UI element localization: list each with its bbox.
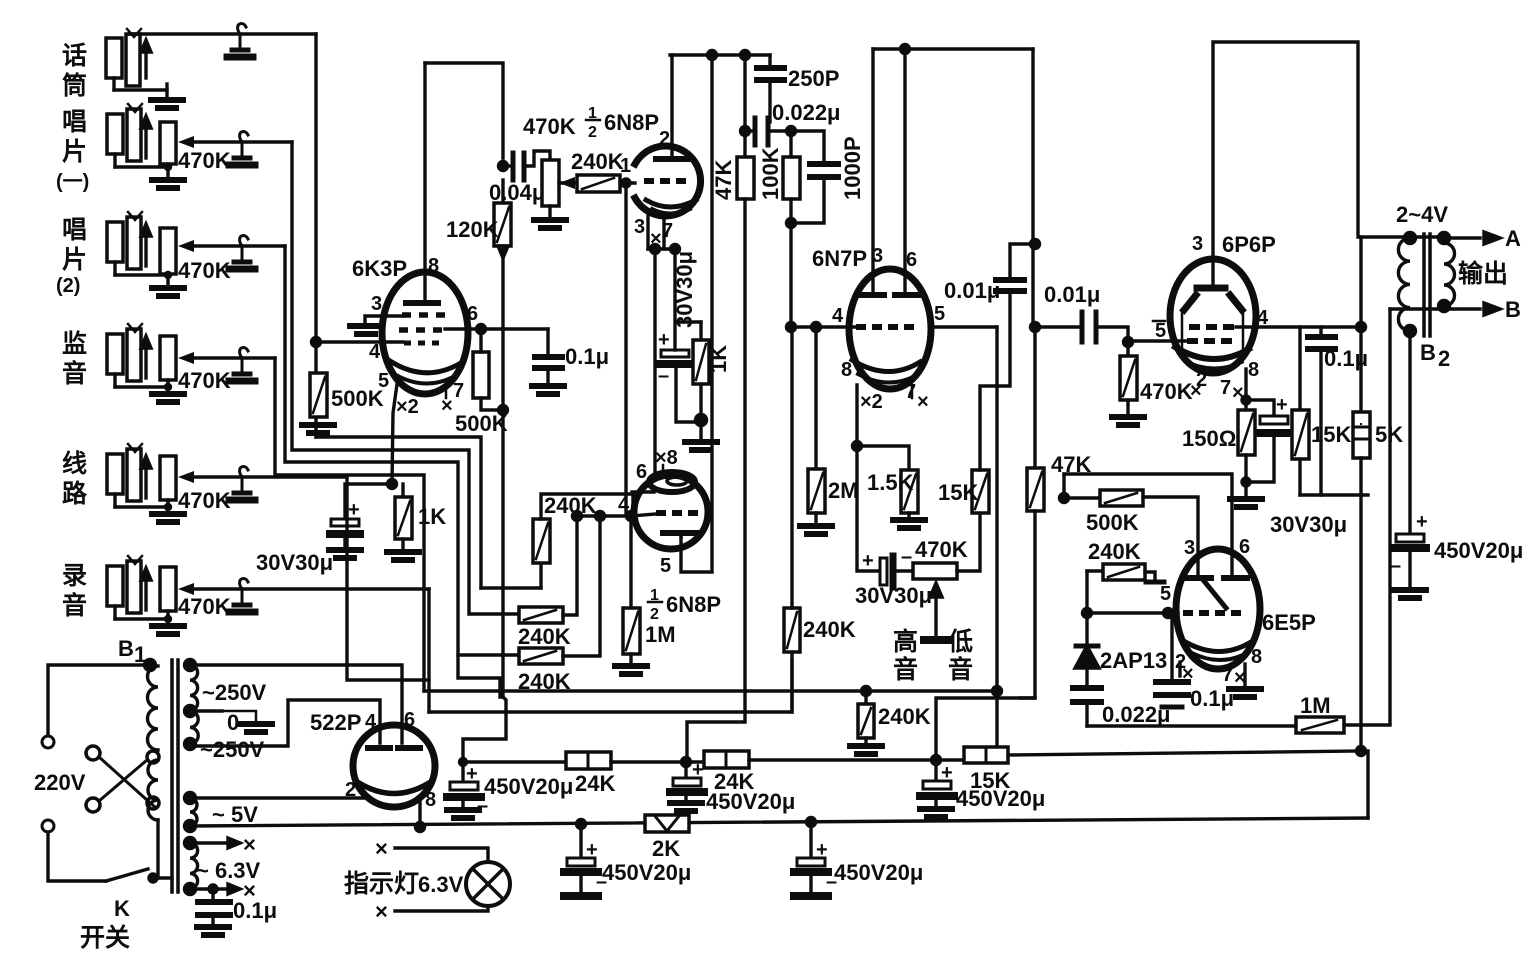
svg-text:470K: 470K	[178, 148, 231, 173]
terminal circle bottom	[42, 820, 54, 832]
wire plate top loop	[425, 63, 503, 158]
node junction (712,55)	[708, 51, 717, 60]
svg-text:(一): (一)	[56, 171, 89, 193]
6E5P pin8 lead + ground	[1243, 664, 1246, 685]
svg-text:5: 5	[378, 370, 389, 392]
svg-text:470K: 470K	[915, 537, 968, 562]
plug P4	[229, 347, 255, 381]
node junction (168,387)	[166, 385, 171, 390]
470K wiper arrow down	[934, 596, 937, 638]
svg-text:+: +	[658, 329, 670, 351]
resistor 470K (volume top)	[542, 160, 559, 206]
svg-text:7: 7	[453, 380, 464, 402]
6P6P beam plates	[1184, 295, 1196, 310]
svg-text:唱: 唱	[62, 108, 87, 136]
svg-text:2~4V: 2~4V	[1396, 202, 1448, 227]
node 500K2 top	[477, 325, 486, 334]
svg-text:2: 2	[650, 606, 659, 623]
resistor 120K	[501, 180, 504, 203]
resistor 15K (feedback)	[1298, 327, 1301, 410]
ground (row5 pot)	[152, 514, 184, 522]
6K3P cathode arc	[390, 361, 459, 373]
node junction (631,516)	[627, 512, 636, 521]
wire HV bottom to 522P pin4	[190, 700, 380, 746]
wire 6N7P plate down long	[995, 327, 998, 747]
svg-text:240K: 240K	[803, 617, 856, 642]
potentiometer 470K row5	[160, 456, 176, 500]
svg-text:+: +	[348, 499, 360, 521]
node 120K bottom junction	[499, 406, 508, 415]
svg-text:1M: 1M	[1300, 693, 1331, 718]
svg-text:0.022μ: 0.022μ	[772, 100, 841, 125]
6N7P plate leads to top	[871, 49, 874, 293]
potentiometer 470K (tone)	[913, 563, 957, 579]
svg-text:30V30μ: 30V30μ	[1270, 512, 1347, 537]
wire top line 2	[670, 53, 770, 56]
svg-text:话: 话	[62, 42, 87, 70]
output arrow A	[1444, 236, 1480, 239]
resistor 1M (magic eye feed)	[1296, 725, 1299, 726]
6N8P1 grid dashes	[644, 178, 686, 184]
svg-text:0.1μ: 0.1μ	[233, 898, 277, 923]
wire pin8 lead down to 6N8P2	[653, 249, 656, 477]
wire staircase row2	[292, 142, 519, 614]
6N7P grid wire	[791, 325, 856, 328]
6K3P grid dashes row1	[402, 312, 445, 318]
6P6P pin8 lead	[1244, 369, 1247, 410]
svg-text:15K: 15K	[938, 480, 978, 505]
ground (row4 pot)	[152, 394, 184, 402]
node junction (745,55)	[741, 51, 750, 60]
svg-text:1000P: 1000P	[840, 136, 865, 200]
svg-text:~ 6.3V: ~ 6.3V	[196, 858, 261, 883]
diode 2AP13	[1085, 613, 1088, 646]
plug P1	[227, 23, 253, 57]
svg-text:30V30μ: 30V30μ	[256, 550, 333, 575]
wire wiper row6	[190, 587, 429, 590]
svg-text:470K: 470K	[523, 114, 576, 139]
node junction (675,249)	[671, 245, 680, 254]
wire cathode to bypass	[345, 484, 392, 518]
capacitor 450V20u no1	[461, 762, 464, 780]
node junction (866,691)	[862, 687, 871, 696]
ground (row3 pot)	[152, 288, 184, 296]
input jack J5 line	[107, 444, 168, 507]
svg-text:240K: 240K	[518, 624, 571, 649]
6K3P grid dashes row2	[399, 327, 442, 333]
input jack J4 monitor	[107, 324, 168, 387]
switch K blade	[106, 869, 148, 881]
resistor 15K (rail)	[964, 747, 1008, 763]
wire rail right to 5K line	[1008, 751, 1361, 755]
svg-text:1K: 1K	[706, 345, 731, 373]
resistor 2M	[814, 327, 817, 469]
resistor 240K mixer vertical	[539, 563, 542, 588]
resistor 240K (to 6N8P grid)	[559, 181, 577, 184]
transformer B2 core	[1422, 234, 1426, 336]
capacitor 450V20u no2	[684, 762, 687, 776]
6N8P2 grid wire	[577, 514, 656, 516]
svg-text:8: 8	[425, 789, 436, 811]
svg-text:音: 音	[62, 359, 87, 388]
svg-text:450V20μ: 450V20μ	[484, 774, 573, 799]
node junction (168,507)	[166, 505, 171, 510]
6N8P2 pin6 stub	[632, 490, 654, 493]
svg-text:0.1μ: 0.1μ	[565, 344, 609, 369]
node junction (905,49)	[901, 45, 910, 54]
svg-text:~250V: ~250V	[200, 737, 265, 762]
wire 0.01u1 bottom leg	[980, 295, 1010, 470]
6E5P ray line	[1204, 581, 1226, 608]
6N7P cathode arcs	[852, 360, 920, 372]
svg-text:2: 2	[588, 124, 597, 141]
svg-text:(2): (2)	[56, 275, 80, 297]
ground (row6 pot)	[152, 626, 184, 634]
wire bus A long	[424, 689, 997, 692]
svg-text:15K: 15K	[1311, 422, 1351, 447]
svg-text:6K3P: 6K3P	[352, 256, 407, 281]
svg-text:8: 8	[428, 255, 439, 277]
node junction (997,691)	[993, 687, 1002, 696]
svg-text:240K: 240K	[878, 704, 931, 729]
terminal circle top	[42, 736, 54, 748]
6N8P2 plate bar	[663, 530, 697, 536]
wire wiper row4	[190, 356, 275, 359]
node junction (936,760)	[932, 756, 941, 765]
522P pin8 lead	[418, 802, 421, 825]
potentiometer 470K row6	[160, 567, 176, 611]
svg-text:120K: 120K	[446, 217, 499, 242]
wire 240K left leg	[1085, 571, 1088, 613]
6P6P pin4 plate wire	[1236, 325, 1361, 328]
capacitor 450V20u no5	[807, 818, 816, 827]
wire wiper row2	[190, 140, 292, 143]
svg-text:3: 3	[634, 216, 645, 238]
6N7P pin8 lead	[855, 385, 858, 446]
svg-text:监: 监	[62, 330, 87, 358]
svg-text:×8: ×8	[655, 447, 678, 469]
node junction (791,131)	[787, 127, 796, 136]
svg-text:15K: 15K	[970, 768, 1010, 793]
6P6P cathode arc	[1175, 347, 1249, 359]
svg-text:4: 4	[369, 341, 381, 363]
svg-text:~ 5V: ~ 5V	[212, 802, 258, 827]
capacitor 0.1u (heater)	[211, 889, 214, 899]
resistor 240K mixer h2	[458, 653, 519, 656]
svg-text:6P6P: 6P6P	[1222, 232, 1276, 257]
wire mic vertical bus	[314, 34, 317, 437]
svg-text:0.01μ: 0.01μ	[1044, 282, 1100, 307]
B1 HV secondary winding	[185, 660, 196, 671]
capacitor 0.022u (feedback)	[745, 129, 751, 132]
wire top line 3	[873, 47, 1033, 50]
wire wiper row5	[190, 475, 347, 478]
capacitor 0.1u (magic eye)	[1170, 613, 1173, 680]
svg-text:音: 音	[893, 655, 918, 684]
resistor 240K (decoupler)	[864, 691, 867, 704]
svg-text:24K: 24K	[575, 771, 615, 796]
plug P3	[229, 235, 255, 269]
wire mic top line	[130, 32, 316, 35]
wire staircase row1	[316, 437, 481, 588]
svg-text:8: 8	[1251, 646, 1262, 668]
6N8P1 plate lead	[670, 55, 673, 157]
resistor 100K (vertical, plain)	[789, 131, 792, 157]
indicator lamp	[466, 862, 510, 906]
resistor 1K (6N8P cathode)	[676, 320, 701, 323]
node cathode junction	[388, 480, 397, 489]
node junction (816,327)	[812, 323, 821, 332]
tube 6E5P envelope	[1176, 549, 1260, 669]
svg-text:240K: 240K	[571, 149, 624, 174]
wire row1 landing	[481, 586, 541, 589]
node junction (1246,482)	[1242, 478, 1250, 486]
svg-text:24K: 24K	[714, 769, 754, 794]
B1 primary winding upper	[145, 660, 156, 671]
resistor 15K (6N7P plate load)	[972, 470, 989, 513]
node junction (1064,498)	[1060, 494, 1069, 503]
svg-text:7: 7	[905, 381, 916, 403]
capacitor 30V30u (6N7P cathode)	[857, 446, 878, 571]
6E5P pin2 lead to 0.1u	[1178, 662, 1181, 676]
svg-text:6N8P: 6N8P	[666, 592, 721, 617]
svg-text:2K: 2K	[652, 836, 680, 861]
svg-text:2: 2	[659, 128, 670, 150]
tube 6N7P envelope	[849, 269, 931, 389]
svg-text:片: 片	[62, 246, 87, 274]
svg-text:500K: 500K	[1086, 510, 1139, 535]
node junction (1128,342)	[1124, 338, 1133, 347]
svg-text:470K: 470K	[178, 594, 231, 619]
ground (mic jack)	[151, 100, 183, 108]
6N7P grid dashes	[856, 324, 914, 330]
svg-text:30V30μ: 30V30μ	[672, 251, 697, 328]
svg-text:5: 5	[934, 303, 945, 325]
6N7P plate bars	[861, 292, 884, 298]
svg-text:6N8P: 6N8P	[604, 110, 659, 135]
6N8P1 cathode arcs	[646, 200, 696, 207]
svg-text:片: 片	[62, 138, 87, 166]
node junction (1410,331)	[1405, 326, 1416, 337]
node junction (600,516)	[596, 512, 605, 521]
tube 522P envelope	[353, 725, 435, 807]
capacitor 450V20u no3	[934, 760, 937, 780]
svg-text:指示灯: 指示灯	[344, 870, 419, 898]
svg-text:开关: 开关	[80, 924, 130, 952]
capacitor 450V20u no4	[577, 820, 586, 829]
node junction (213,889)	[209, 885, 217, 893]
svg-text:4: 4	[1257, 307, 1269, 329]
svg-text:1K: 1K	[418, 504, 446, 529]
transformer B2 primary	[1361, 235, 1447, 238]
tap 0 + ground	[190, 709, 222, 712]
svg-text:唱: 唱	[62, 216, 87, 244]
capacitor 250P	[768, 55, 771, 64]
resistor 24K no2	[704, 751, 749, 768]
svg-text:3: 3	[371, 293, 382, 315]
wire 6K3P plate row	[445, 327, 548, 330]
svg-text:1.5K: 1.5K	[867, 470, 914, 495]
resistor 1K (6K3P cathode)	[401, 484, 404, 497]
resistor 1.5K	[857, 446, 909, 470]
svg-text:470K: 470K	[178, 368, 231, 393]
resistor 47K (vertical, plain)	[743, 55, 746, 157]
svg-text:录: 录	[62, 562, 87, 590]
svg-text:5: 5	[1155, 320, 1166, 342]
input jack J3 phono2	[107, 212, 168, 275]
wire ground rail	[190, 818, 1368, 826]
plug P6	[229, 578, 255, 612]
node junction (190,744)	[185, 739, 196, 750]
svg-text:2AP13: 2AP13	[1100, 648, 1167, 673]
svg-text:500K: 500K	[331, 386, 384, 411]
svg-text:6: 6	[404, 709, 415, 731]
6E5P grid dashes	[1183, 610, 1241, 616]
node junction (857,446)	[853, 442, 862, 451]
svg-text:B: B	[1505, 297, 1521, 322]
svg-text:3: 3	[872, 245, 883, 267]
svg-text:6: 6	[467, 303, 478, 325]
wire grid bus down (x628)	[624, 183, 627, 515]
svg-text:6.3V: 6.3V	[418, 872, 464, 897]
wire B+ rail	[463, 760, 566, 763]
svg-text:线: 线	[62, 449, 87, 478]
wire top right vertical	[1031, 49, 1034, 327]
wire cathode junction row	[648, 247, 675, 250]
6K3P grid dashes row3	[404, 341, 439, 346]
6P6P grid dashes row2	[1187, 338, 1232, 344]
svg-text:A: A	[1505, 226, 1521, 251]
resistor 240K mixer h1	[519, 607, 563, 623]
resistor 1M (6N8P2 grid leak)	[629, 516, 632, 608]
input jack J6 recording	[107, 556, 168, 619]
svg-text:–: –	[901, 546, 912, 568]
svg-text:8: 8	[1248, 359, 1259, 381]
node junction (577,516)	[573, 512, 582, 521]
svg-text:×2: ×2	[860, 391, 883, 413]
svg-text:×2: ×2	[396, 396, 419, 418]
wire rail right end elbow	[1361, 751, 1368, 818]
B1 5V winding	[185, 793, 196, 804]
capacitor 0.1u (6K3P)	[546, 329, 549, 353]
capacitor 0.01u (second, coupling)	[1035, 325, 1078, 328]
svg-text:音: 音	[62, 591, 87, 620]
svg-text:450V20μ: 450V20μ	[1434, 538, 1523, 563]
wire staircase row3	[285, 246, 500, 697]
svg-text:100K: 100K	[758, 147, 783, 200]
resistor 5K	[1359, 237, 1362, 412]
node junction (1168,613)	[1164, 609, 1173, 618]
capacitor 30V30u (6K3P cathode)	[330, 499, 360, 548]
svg-text:7: 7	[662, 220, 673, 242]
wire detector bottom bus	[1087, 724, 1298, 727]
B1 primary winding lower	[148, 760, 158, 820]
svg-text:B: B	[118, 636, 134, 661]
wire staircase row5	[347, 477, 429, 680]
svg-text:×: ×	[1190, 380, 1202, 402]
wire magic eye grid row	[1087, 611, 1178, 614]
node junction (791,327)	[787, 323, 796, 332]
svg-text:高: 高	[893, 627, 918, 656]
svg-text:筒: 筒	[62, 71, 87, 100]
tube 6K3P envelope	[382, 272, 468, 394]
capacitor 1000P	[791, 131, 824, 160]
resistor 500K grid leak 6K3P	[310, 373, 327, 417]
node junction (1087,613)	[1083, 609, 1092, 618]
resistor 500K (plate divider)	[473, 352, 489, 398]
resistor 24K no1	[566, 752, 611, 769]
svg-text:5: 5	[660, 555, 671, 577]
svg-text:30V30μ: 30V30μ	[855, 583, 932, 608]
svg-text:B: B	[1420, 340, 1436, 365]
node junction (168,275)	[166, 273, 171, 278]
wire feedback bottom	[1300, 493, 1368, 496]
capacitor 0.01u (first)	[996, 280, 1024, 291]
svg-text:47K: 47K	[711, 160, 736, 200]
svg-text:7: 7	[1220, 377, 1231, 399]
svg-text:×: ×	[1182, 663, 1194, 685]
wire tone box top	[1064, 474, 1232, 576]
node junction (791,223)	[787, 219, 796, 228]
wire staircase row4	[275, 358, 424, 691]
6N7P plate wire right	[930, 325, 997, 328]
wire HV top to 522P pin6	[190, 665, 402, 743]
tube 1/2 6N8P (second half) envelope	[634, 475, 708, 549]
node junction (686,762)	[682, 758, 691, 767]
node junction (1035,244)	[1031, 240, 1040, 249]
svg-text:470K: 470K	[178, 488, 231, 513]
wire x503 to B+ rail	[463, 697, 506, 762]
svg-text:6: 6	[636, 461, 647, 483]
node junction (1246,400)	[1242, 396, 1250, 404]
B1 6.3V winding	[185, 838, 196, 849]
6N8P1 pin3 pin7 leads	[646, 215, 649, 249]
node junction (1410,238)	[1405, 233, 1416, 244]
input jack J1 microphone	[106, 29, 167, 98]
svg-text:音: 音	[948, 655, 973, 684]
resistor 2K (triangle)	[645, 815, 689, 832]
node 6K3P grid junction	[312, 338, 321, 347]
node junction (1035,327)	[1031, 323, 1040, 332]
svg-text:×: ×	[917, 391, 929, 413]
svg-text:K: K	[114, 896, 130, 921]
svg-text:7: 7	[1222, 664, 1233, 686]
6K3P pin 3 wire + ground	[365, 316, 403, 324]
6E5P cathode arcs	[1182, 640, 1251, 652]
resistor 47K (tone box feed)	[1033, 327, 1036, 468]
plug P2	[229, 131, 255, 165]
resistor 150 ohm	[1238, 410, 1255, 455]
node junction (655,249)	[651, 245, 660, 254]
6N8P2 grid dashes	[656, 510, 698, 516]
svg-text:470K: 470K	[178, 258, 231, 283]
potentiometer 470K row4	[160, 336, 176, 380]
svg-text:450V20μ: 450V20μ	[602, 860, 691, 885]
ground (500K)	[302, 425, 334, 433]
node junction (420,827)	[416, 823, 425, 832]
capacitor 30V30u (6P6P cathode)	[1246, 400, 1274, 414]
svg-text:6: 6	[1239, 536, 1250, 558]
resistor 470K (6P6P grid)	[1126, 342, 1129, 356]
node junction (626,183)	[622, 179, 630, 187]
tube 1/2 6N8P (first half) envelope	[635, 146, 701, 216]
capacitor 0.022u (detector)	[1073, 688, 1101, 702]
6P6P grid dashes row1	[1189, 324, 1234, 330]
wire rail to 15K	[749, 758, 964, 761]
svg-text:低: 低	[947, 628, 973, 656]
node junction (168,167)	[166, 165, 171, 170]
potentiometer 240K (magic eye)	[1087, 569, 1103, 572]
